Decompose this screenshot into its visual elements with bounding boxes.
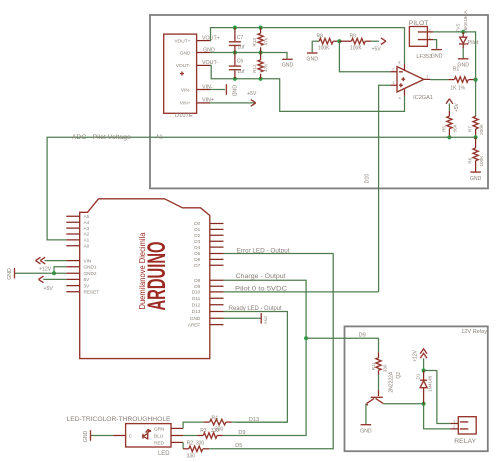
resistor R13 47K bbox=[252, 28, 268, 53]
wire GND rail of U1 bbox=[210, 53, 287, 59]
svg-text:VOUT+: VOUT+ bbox=[174, 38, 190, 44]
svg-text:D0: D0 bbox=[194, 221, 200, 226]
svg-text:R11: R11 bbox=[371, 362, 376, 371]
pin BLU of LED bbox=[171, 435, 183, 437]
ground symbol below R6 bbox=[470, 172, 482, 182]
svg-text:Q2: Q2 bbox=[396, 372, 402, 379]
wire op-amp + input from D10 vertical bbox=[379, 85, 391, 292]
pin labels right side bbox=[188, 221, 201, 327]
svg-text:VIN+: VIN+ bbox=[180, 101, 191, 107]
wire +12V to D1 top node bbox=[423, 358, 425, 370]
LED tricolor box bbox=[126, 424, 171, 458]
wire RED jog to R2 bbox=[182, 442, 184, 448]
ground symbol below TVS bbox=[457, 59, 469, 69]
wire Ready LED output net D13 bbox=[224, 312, 288, 423]
svg-text:R13: R13 bbox=[252, 38, 257, 47]
pin C of LED bbox=[113, 435, 125, 437]
svg-text:+5V: +5V bbox=[247, 91, 257, 97]
pin VIN- of U1 bbox=[197, 89, 210, 91]
TVS diode P6KE18CA bbox=[456, 9, 469, 48]
svg-text:GND: GND bbox=[360, 428, 372, 434]
junction Charge net to relay branch bbox=[304, 336, 308, 340]
IC U1 D107E dc-dc converter box bbox=[164, 34, 197, 119]
ground symbol below U1 GND rail bbox=[282, 59, 294, 68]
svg-text:D4: D4 bbox=[194, 245, 200, 250]
svg-text:D12: D12 bbox=[192, 303, 201, 308]
svg-text:D5: D5 bbox=[194, 251, 200, 256]
svg-text:RED: RED bbox=[154, 440, 165, 445]
junction GND rail at C7/C6 bbox=[233, 50, 237, 54]
svg-text:R7: R7 bbox=[468, 126, 473, 132]
ground symbol below Q2 bbox=[360, 425, 372, 435]
svg-text:GND: GND bbox=[264, 316, 268, 325]
svg-text:D9: D9 bbox=[359, 333, 366, 339]
svg-text:Pilot 0 to 5VDC: Pilot 0 to 5VDC bbox=[235, 285, 288, 292]
svg-text:C6: C6 bbox=[237, 59, 244, 65]
wire R9 to +5V bbox=[371, 40, 379, 42]
junction VOUT+ rail at R13 bbox=[259, 26, 263, 30]
svg-text:R3: R3 bbox=[200, 428, 207, 434]
junction VOUT- rail at C6 bbox=[233, 77, 237, 81]
pins VIN GND 5V 3V RESET left of Arduino bbox=[66, 261, 79, 292]
svg-text:A4: A4 bbox=[84, 220, 90, 225]
svg-text:GND: GND bbox=[83, 430, 89, 442]
svg-text:R12: R12 bbox=[252, 64, 257, 73]
svg-text:1: 1 bbox=[453, 420, 455, 424]
wire VOUT+ rail to op-amp pin 8 bbox=[210, 28, 405, 64]
Arduino Duemilanove board outline bbox=[80, 199, 210, 359]
svg-text:+12V: +12V bbox=[39, 267, 52, 273]
supply +5V arrow right of R9 bbox=[372, 38, 386, 53]
capacitor C6 1uf bbox=[229, 53, 245, 79]
junction divider node at R7 bbox=[474, 135, 478, 139]
svg-text:A3: A3 bbox=[84, 226, 90, 231]
svg-text:D9: D9 bbox=[194, 284, 200, 289]
resistor R12 47K bbox=[252, 53, 268, 79]
svg-text:1K 1%: 1K 1% bbox=[450, 85, 465, 91]
capacitor C7 1uf bbox=[229, 28, 245, 53]
wire +12V to VIN bbox=[45, 260, 67, 262]
svg-text:R5: R5 bbox=[441, 126, 446, 132]
svg-text:GND: GND bbox=[431, 54, 443, 60]
svg-text:GRN: GRN bbox=[154, 427, 164, 432]
transistor Q2 2N2222A bbox=[366, 371, 402, 406]
wire ADC divider node to Arduino A1 bbox=[47, 137, 476, 240]
junction GND pins tie bbox=[52, 271, 56, 275]
resistor R1 1K 1% bbox=[430, 66, 476, 91]
svg-text:1N4148: 1N4148 bbox=[428, 375, 433, 392]
resistor R6 100K bbox=[468, 137, 484, 172]
junction VOUT- rail at R12 bbox=[259, 77, 263, 81]
svg-text:Pilot: Pilot bbox=[468, 40, 479, 46]
svg-text:VIN-: VIN- bbox=[181, 87, 191, 93]
wire R8/R9 node to op-amp inverting input bbox=[339, 41, 390, 72]
svg-text:GND: GND bbox=[282, 63, 294, 69]
svg-text:D1: D1 bbox=[194, 227, 200, 232]
svg-text:200K: 200K bbox=[479, 123, 484, 135]
ground symbol left of R8 bbox=[306, 41, 318, 62]
resistor R9 100K bbox=[339, 34, 371, 52]
svg-text:+5V: +5V bbox=[372, 47, 382, 53]
svg-text:D13: D13 bbox=[192, 309, 201, 314]
frame pilot-generator section bbox=[150, 15, 488, 188]
svg-text:12V Relay: 12V Relay bbox=[461, 329, 487, 335]
resistor R2 330 bbox=[183, 441, 209, 460]
pin VIN+ of U1 bbox=[197, 102, 210, 104]
svg-text:330: 330 bbox=[187, 454, 196, 460]
wire VIN- to ground bbox=[210, 89, 225, 91]
svg-text:VOUT-: VOUT- bbox=[176, 63, 191, 69]
supply +5V arrow above R5 bbox=[446, 99, 460, 113]
svg-text:GND: GND bbox=[231, 85, 237, 97]
resistor R7 200K bbox=[468, 116, 484, 138]
svg-text:D6: D6 bbox=[194, 257, 200, 262]
wire GND1 jog bbox=[54, 267, 66, 273]
resistor R8 100K bbox=[312, 34, 339, 52]
svg-text:100K: 100K bbox=[350, 46, 362, 52]
wire D1 bottom node to relay pin 2 bbox=[424, 404, 451, 429]
wire GND2 to ground symbol bbox=[15, 272, 67, 274]
pin GRN of LED bbox=[171, 427, 183, 429]
wire Error LED output net D5 bbox=[209, 254, 333, 449]
wire PILOT pin1 to ground bbox=[427, 39, 433, 41]
wire pilot net down to divider bbox=[475, 80, 477, 117]
svg-text:5V: 5V bbox=[84, 277, 91, 282]
frame 12V relay section bbox=[345, 326, 488, 451]
svg-text:R6: R6 bbox=[468, 157, 473, 163]
svg-text:GND1: GND1 bbox=[84, 265, 97, 270]
svg-text:A1: A1 bbox=[156, 135, 163, 141]
resistor R4 330 bbox=[204, 416, 288, 433]
svg-text:PILOT: PILOT bbox=[409, 20, 429, 27]
wire +5V to 5V pin bbox=[43, 278, 66, 280]
wire LED common to ground bbox=[91, 435, 114, 437]
svg-text:GND: GND bbox=[457, 62, 469, 68]
svg-text:Charge - Output: Charge - Output bbox=[236, 273, 286, 280]
wire VIN+ to +5V bbox=[210, 102, 256, 104]
supply +12V arrow at VIN bbox=[36, 257, 52, 272]
svg-text:D8: D8 bbox=[194, 278, 200, 283]
svg-text:BLU: BLU bbox=[154, 433, 164, 438]
svg-text:D107E: D107E bbox=[175, 113, 193, 119]
junction TVS top bbox=[461, 30, 465, 34]
wire Charge output net D9 bbox=[223, 280, 306, 435]
svg-text:D7: D7 bbox=[194, 263, 200, 268]
svg-text:GND: GND bbox=[180, 50, 191, 56]
svg-text:TVS: TVS bbox=[456, 24, 461, 33]
junction VOUT+ rail at C7 bbox=[233, 26, 237, 30]
svg-text:Ready LED - Output: Ready LED - Output bbox=[229, 305, 282, 312]
svg-text:D3: D3 bbox=[194, 239, 200, 244]
op-amp IC2GA1 LF353 bbox=[391, 54, 434, 101]
svg-text:47K: 47K bbox=[264, 36, 269, 45]
svg-text:RESET: RESET bbox=[84, 290, 100, 295]
svg-text:ARDUINO: ARDUINO bbox=[143, 242, 171, 311]
svg-text:+5V: +5V bbox=[44, 286, 54, 292]
svg-text:AREF: AREF bbox=[188, 322, 201, 327]
pins D8-AREF right of Arduino bbox=[210, 280, 224, 324]
resistor R3 330 bbox=[183, 428, 223, 438]
svg-text:A0: A0 bbox=[84, 244, 90, 249]
svg-text:ADC - Pilot Voltage: ADC - Pilot Voltage bbox=[72, 134, 132, 141]
connector RELAY bbox=[450, 417, 476, 445]
svg-text:1uf: 1uf bbox=[237, 45, 245, 51]
supply +5V arrow at VIN+ bbox=[247, 91, 257, 106]
wire D9 net into relay frame bbox=[306, 338, 378, 352]
connector PILOT bbox=[409, 20, 431, 47]
svg-text:D10: D10 bbox=[192, 290, 201, 295]
svg-text:D5: D5 bbox=[235, 443, 242, 449]
svg-text:A5: A5 bbox=[84, 214, 90, 219]
svg-text:D9: D9 bbox=[238, 430, 245, 436]
svg-text:D11: D11 bbox=[192, 296, 201, 301]
junction GND rail at R13/R12 bbox=[259, 50, 263, 54]
resistor R5 56K bbox=[441, 103, 457, 137]
svg-text:2N2222A: 2N2222A bbox=[389, 371, 395, 393]
svg-text:+12V: +12V bbox=[412, 349, 418, 361]
wire PILOT pin2 to pilot net bbox=[427, 31, 433, 33]
svg-text:GND: GND bbox=[190, 316, 201, 321]
ground symbol below PILOT bbox=[431, 50, 443, 60]
junction D1 bottom node bbox=[422, 402, 426, 406]
wire R11 to Q2 base bbox=[378, 375, 380, 391]
supply +5V arrow at 5V pin bbox=[39, 276, 54, 292]
supply +12V arrow in relay section bbox=[412, 349, 427, 362]
wire Q2 collector to D1 node bbox=[383, 403, 423, 405]
svg-text:3V: 3V bbox=[84, 283, 91, 288]
svg-text:100K: 100K bbox=[318, 46, 330, 52]
svg-text:330: 330 bbox=[382, 364, 387, 372]
wire Arduino GND pin to ground bbox=[224, 317, 262, 319]
pin RED of LED bbox=[171, 441, 183, 443]
svg-text:P6KE18CA: P6KE18CA bbox=[463, 9, 468, 33]
svg-text:GND: GND bbox=[7, 268, 13, 280]
svg-text:Error LED - Output: Error LED - Output bbox=[237, 248, 290, 255]
wire GRN jog to R4 bbox=[183, 422, 204, 428]
pin VOUT- of U1 bbox=[197, 64, 210, 66]
resistor R11 330 bbox=[371, 352, 387, 374]
svg-text:1uf: 1uf bbox=[237, 69, 245, 75]
ground symbol at VIN- (rotated) bbox=[226, 84, 236, 96]
ground symbol at Arduino GND pin (rotated) bbox=[261, 313, 268, 324]
svg-text:RELAY: RELAY bbox=[454, 438, 476, 445]
ground symbol left of Arduino (rotated) bbox=[7, 268, 14, 280]
svg-text:LED: LED bbox=[158, 450, 170, 457]
svg-text:D1: D1 bbox=[415, 373, 420, 379]
svg-text:56K: 56K bbox=[453, 123, 458, 132]
junction R1 output node bbox=[474, 78, 478, 82]
svg-text:+5V: +5V bbox=[454, 102, 460, 112]
svg-text:GND: GND bbox=[306, 56, 318, 62]
svg-text:GND: GND bbox=[470, 176, 482, 182]
wire Pilot 0 to 5VDC net D10 bbox=[224, 291, 379, 293]
pins D0-D7 right of Arduino bbox=[210, 224, 224, 266]
pins A5-A0 left of Arduino bbox=[66, 216, 79, 246]
pin labels left side bbox=[84, 214, 100, 295]
svg-text:100K: 100K bbox=[479, 155, 484, 167]
wire Q2 emitter to ground bbox=[365, 404, 367, 425]
svg-text:A1: A1 bbox=[84, 238, 90, 243]
pin VOUT+ of U1 bbox=[197, 40, 210, 42]
svg-text:D2: D2 bbox=[194, 233, 200, 238]
svg-text:C7: C7 bbox=[237, 35, 244, 41]
wire VOUT- rail to op-amp pin 4 bbox=[210, 65, 405, 111]
wire TVS to ground bbox=[462, 48, 464, 58]
svg-text:IC2GA1: IC2GA1 bbox=[413, 95, 433, 101]
svg-text:A2: A2 bbox=[84, 232, 90, 237]
junction R8/R9 node bbox=[337, 39, 341, 43]
pin GND of U1 bbox=[197, 52, 210, 54]
svg-text:2: 2 bbox=[453, 425, 455, 429]
wire D1 top node to relay pin 1 bbox=[424, 371, 451, 424]
svg-text:330: 330 bbox=[211, 428, 220, 434]
junction divider node at R5 bbox=[447, 135, 451, 139]
ground symbol left of LED (rotated) bbox=[83, 430, 90, 442]
svg-text:LED-TRICOLOR-THROUGHHOLE: LED-TRICOLOR-THROUGHHOLE bbox=[67, 416, 171, 423]
svg-text:GND2: GND2 bbox=[84, 271, 97, 276]
diode D1 1N4148 bbox=[415, 371, 432, 404]
svg-text:330: 330 bbox=[196, 441, 205, 447]
svg-text:D10: D10 bbox=[364, 174, 370, 184]
junction D1 top node bbox=[422, 368, 426, 372]
svg-text:47K: 47K bbox=[264, 63, 269, 72]
svg-text:D13: D13 bbox=[249, 417, 259, 423]
svg-text:VIN: VIN bbox=[84, 258, 92, 263]
